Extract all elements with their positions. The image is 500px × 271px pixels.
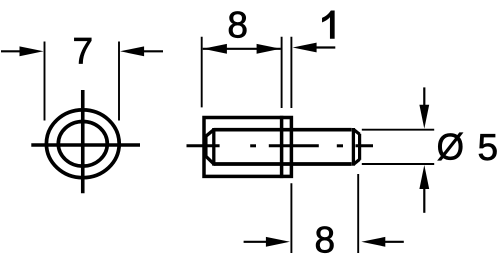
side view pin tip top chamfer [354, 130, 360, 135]
dim diameter 5 bottom arrow line [423, 185, 425, 213]
side view pin end face [358, 134, 361, 160]
front view horizontal crosshair [31, 143, 140, 147]
dim diameter 5 bottom arrowhead [419, 165, 429, 189]
side view pin tip bottom chamfer [354, 159, 360, 164]
dim 7 right arrow line [140, 50, 163, 52]
side view flange line [280, 116, 284, 178]
dim diameter 5 bottom extension line [362, 163, 434, 165]
dim 7 left arrowhead [20, 46, 44, 56]
dim 8 bottom left arrowhead [266, 237, 290, 247]
side view centerline segment C [269, 144, 319, 147]
side view pin bottom line [214, 162, 352, 166]
dim 8 top left extension line [201, 37, 203, 108]
dim 1 arrowhead [293, 43, 317, 53]
dim 8 bottom left arrow line [244, 241, 270, 243]
svg-text:5: 5 [478, 127, 499, 168]
svg-text:8: 8 [227, 4, 248, 45]
dim 8 bottom right extension line [357, 174, 359, 253]
side view centerline dash D [337, 144, 343, 147]
front view outer circle [46, 110, 119, 178]
front view inner circle [58, 122, 107, 167]
dim 8 bottom left extension line [290, 183, 292, 253]
front view vertical crosshair [81, 90, 85, 193]
dim 7 left extension line [44, 42, 46, 121]
dim diameter 5 top arrow line [423, 87, 425, 108]
side view bore bottom chamfer [206, 156, 214, 164]
dim diameter 5 top extension line [362, 129, 434, 131]
dim diameter 5 top arrowhead [419, 105, 429, 129]
side view centerline dash B [250, 144, 256, 147]
dim 1 arrow line [315, 46, 335, 48]
dim 8 bottom right arrow line [380, 241, 404, 243]
svg-text:8: 8 [315, 219, 336, 260]
dim 7 right arrowhead [120, 46, 144, 56]
dim 8 top left arrowhead [203, 44, 227, 54]
dim 1 right extension line [290, 37, 292, 108]
svg-text:Ø: Ø [437, 126, 464, 168]
dim 8 top right arrowhead [257, 44, 281, 54]
dim 8 top dimension line [203, 48, 281, 50]
dim 8 top right extension line [281, 37, 283, 108]
side view body rectangle [204, 118, 291, 177]
dim 7 left arrow line [1, 50, 24, 52]
side view bore entry vertical [204, 136, 207, 157]
side view bore transition vertical [212, 128, 215, 166]
side view pin top line [214, 128, 352, 132]
side view centerline segment E [356, 144, 374, 147]
svg-text:7: 7 [73, 31, 94, 72]
side view centerline segment A [187, 144, 220, 147]
dim 7 right extension line [118, 42, 120, 121]
side view bore top chamfer [206, 130, 214, 137]
dim 1 text [322, 11, 334, 39]
side view pin chamfer vertical [352, 128, 355, 166]
dim 8 bottom right arrowhead [361, 237, 385, 247]
